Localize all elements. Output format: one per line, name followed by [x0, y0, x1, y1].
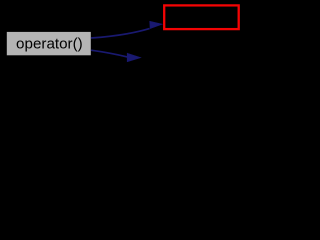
arrowhead — [150, 21, 163, 28]
wire — [91, 50, 129, 57]
edge operator() -> hidden node — [91, 50, 141, 62]
arrowhead — [127, 53, 141, 62]
node operator() (current node, gray) — [7, 32, 91, 55]
edge operator() -> truncated red node — [91, 21, 162, 38]
wire — [91, 29, 150, 38]
svg-text:operator(): operator() — [16, 35, 83, 52]
node truncated (red border, dark fill) — [164, 5, 239, 29]
